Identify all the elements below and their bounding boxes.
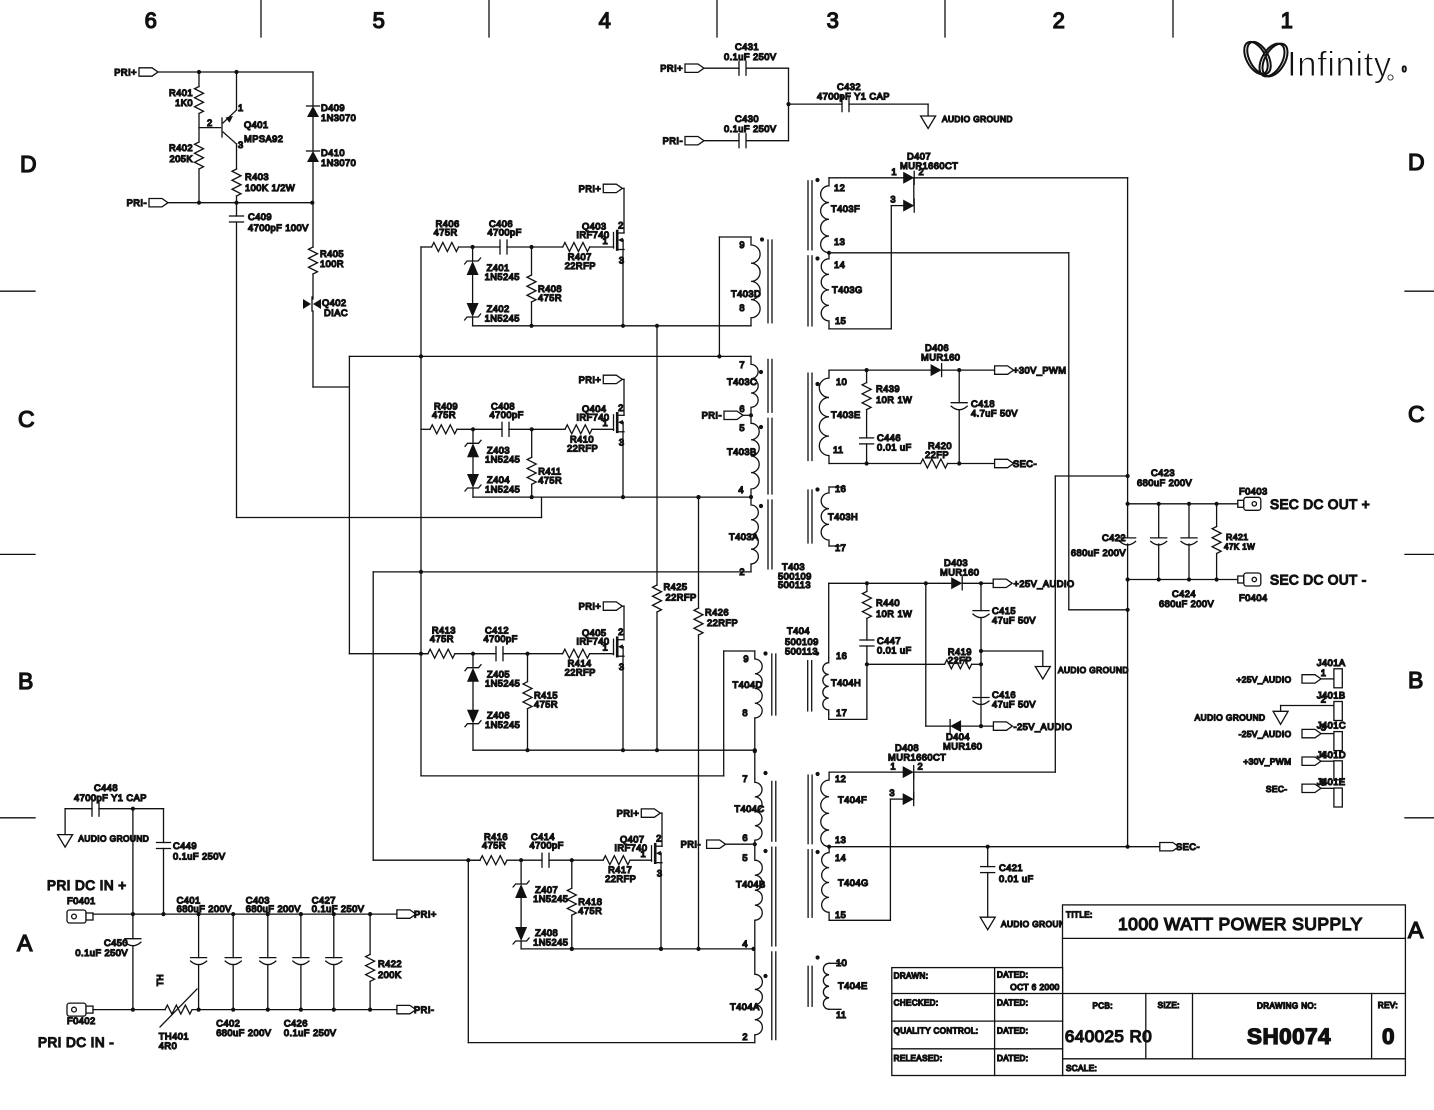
- capacitor C418: [958, 370, 960, 403]
- svg-text:TITLE:: TITLE:: [1066, 911, 1093, 920]
- svg-text:2: 2: [618, 403, 624, 413]
- svg-text:+25V_AUDIO: +25V_AUDIO: [1237, 674, 1292, 684]
- resistor R419 22FP: [945, 660, 972, 669]
- svg-text:C426: C426: [284, 1019, 308, 1029]
- transformer T403H: [821, 487, 829, 546]
- zener Z403 1N5245: [472, 429, 474, 443]
- svg-text:J401A: J401A: [1317, 658, 1346, 668]
- svg-text:15: 15: [835, 316, 846, 326]
- wire C409 route: [237, 517, 542, 519]
- diode D408 pin3: [903, 793, 914, 805]
- svg-text:T403E: T403E: [831, 410, 861, 420]
- svg-text:8: 8: [739, 303, 745, 313]
- SEC- flag: [995, 459, 1014, 467]
- svg-text:5: 5: [373, 8, 386, 33]
- svg-text:1N5245: 1N5245: [485, 454, 520, 464]
- svg-text:CHECKED:: CHECKED:: [894, 999, 939, 1008]
- capacitor C427: [333, 914, 335, 958]
- svg-text:3: 3: [619, 438, 625, 448]
- svg-text:C402: C402: [216, 1019, 240, 1029]
- svg-text:PRI-: PRI-: [663, 136, 683, 146]
- svg-text:4: 4: [742, 939, 748, 949]
- svg-text:22RFP: 22RFP: [565, 261, 596, 271]
- svg-text:22RFP: 22RFP: [666, 593, 697, 603]
- diode D408 MUR1660CT pin1-2: [829, 771, 903, 773]
- svg-text:PRI-: PRI-: [681, 840, 701, 850]
- svg-text:680uF 200V: 680uF 200V: [1159, 599, 1215, 609]
- wire pins13/14 to output loop: [829, 252, 1069, 254]
- svg-text:3: 3: [619, 255, 625, 265]
- svg-text:D407: D407: [907, 152, 931, 162]
- resistor R426 22RFP: [698, 497, 700, 608]
- capacitor C450: [132, 809, 134, 939]
- svg-text:J401E: J401E: [1317, 777, 1346, 787]
- svg-text:C431: C431: [735, 42, 759, 52]
- svg-text:500113: 500113: [785, 647, 818, 657]
- diode D407 pin3: [903, 200, 914, 212]
- resistor R401: [198, 72, 200, 87]
- audio ground mid: [1035, 667, 1050, 680]
- svg-text:SEC-: SEC-: [1266, 784, 1288, 794]
- svg-text:5: 5: [739, 423, 745, 433]
- svg-text:47K 1W: 47K 1W: [1224, 543, 1255, 552]
- svg-text:Z402: Z402: [487, 304, 510, 314]
- svg-text:2: 2: [739, 567, 745, 577]
- svg-text:475R: 475R: [538, 475, 562, 485]
- wire drain: [661, 813, 663, 846]
- wire T404G pin15 to D408 pin3: [829, 919, 890, 921]
- svg-text:4: 4: [738, 485, 744, 495]
- svg-text:C448: C448: [94, 783, 118, 793]
- svg-text:T403F: T403F: [831, 204, 860, 214]
- wire T404 pin8-pin7 link: [754, 718, 756, 778]
- svg-text:2: 2: [656, 834, 662, 844]
- svg-text:475R: 475R: [578, 906, 602, 916]
- svg-text:Z406: Z406: [487, 711, 510, 721]
- svg-text:PRI+: PRI+: [579, 602, 602, 612]
- svg-text:PRI+: PRI+: [660, 64, 683, 74]
- svg-text:0.1uF 250V: 0.1uF 250V: [724, 52, 777, 62]
- svg-text:5: 5: [742, 853, 748, 863]
- svg-text:QUALITY CONTROL:: QUALITY CONTROL:: [894, 1027, 979, 1036]
- zener Z404 1N5245: [472, 457, 474, 474]
- transistor Q401 MPSA92: [199, 127, 221, 129]
- resistor R418 475R: [571, 860, 573, 888]
- resistor R403: [232, 169, 241, 196]
- svg-text:10R 1W: 10R 1W: [876, 395, 912, 405]
- svg-text:DATED:: DATED:: [997, 1054, 1028, 1063]
- resistor R416 475R: [480, 856, 507, 865]
- capacitor C421: [987, 847, 989, 867]
- svg-text:4700pF 100V: 4700pF 100V: [248, 223, 309, 233]
- svg-text:SEC DC OUT +: SEC DC OUT +: [1270, 497, 1370, 512]
- resistor R402: [195, 142, 204, 169]
- svg-text:10R 1W: 10R 1W: [876, 609, 912, 619]
- svg-text:T404: T404: [787, 626, 810, 636]
- svg-text:12: 12: [834, 183, 845, 193]
- svg-text:SEC DC OUT -: SEC DC OUT -: [1270, 573, 1367, 588]
- svg-text:640025 R0: 640025 R0: [1065, 1027, 1152, 1046]
- svg-text:0.1uF 250V: 0.1uF 250V: [75, 948, 128, 958]
- svg-text:TH401: TH401: [159, 1032, 189, 1042]
- svg-text:PRI+: PRI+: [414, 910, 437, 920]
- svg-text:C430: C430: [735, 114, 759, 124]
- connector J401A pin: [1334, 669, 1342, 688]
- svg-text:+25V_AUDIO: +25V_AUDIO: [1014, 579, 1075, 589]
- svg-text:T403B: T403B: [727, 447, 757, 457]
- wire drain: [623, 606, 625, 640]
- drawing border ruler ticks: [260, 0, 262, 37]
- svg-text:F0402: F0402: [67, 1016, 96, 1026]
- transformer T404H: [823, 658, 829, 714]
- resistor R422 200K: [369, 914, 371, 954]
- fuse F0402: [67, 1003, 86, 1016]
- svg-text:C415: C415: [992, 606, 1016, 616]
- svg-text:1N5245: 1N5245: [533, 938, 568, 948]
- PRI+ flag bottom: [397, 910, 416, 918]
- wire D407 cathode to output bus: [914, 177, 1127, 179]
- transformer T403E: [819, 370, 829, 463]
- wire +25V top rail: [829, 582, 952, 584]
- svg-text:4.7uF 50V: 4.7uF 50V: [971, 409, 1018, 419]
- svg-text:D: D: [20, 151, 37, 177]
- svg-text:6: 6: [145, 8, 158, 33]
- svg-text:Q401: Q401: [244, 120, 269, 130]
- svg-text:AUDIO GROUND: AUDIO GROUND: [78, 834, 149, 844]
- svg-text:4700pF: 4700pF: [490, 410, 524, 420]
- resistor R414 22RFP: [563, 649, 590, 658]
- svg-text:AUDIO GROUND: AUDIO GROUND: [942, 114, 1013, 124]
- svg-text:1: 1: [603, 236, 609, 246]
- svg-text:DIAC: DIAC: [324, 308, 348, 318]
- svg-text:475R: 475R: [430, 634, 454, 644]
- svg-text:680uF 200V: 680uF 200V: [216, 1028, 272, 1038]
- svg-text:A: A: [17, 930, 33, 956]
- svg-text:DATED:: DATED:: [997, 999, 1028, 1008]
- svg-text:C409: C409: [248, 212, 272, 222]
- svg-text:R401: R401: [169, 88, 193, 98]
- svg-text:13: 13: [835, 835, 846, 845]
- svg-text:AUDIO GROUND: AUDIO GROUND: [1058, 665, 1129, 675]
- svg-text:T404G: T404G: [838, 878, 869, 888]
- svg-text:200K: 200K: [378, 970, 402, 980]
- svg-text:D409: D409: [321, 103, 345, 113]
- resistor R413 475R: [428, 649, 455, 658]
- svg-text:C446: C446: [877, 433, 901, 443]
- svg-text:4700pF Y1 CAP: 4700pF Y1 CAP: [74, 793, 147, 803]
- capacitor C424: [1188, 504, 1190, 538]
- audio ground input: [64, 809, 66, 835]
- svg-text:1N5245: 1N5245: [533, 894, 568, 904]
- wire mid rail R419: [867, 663, 945, 665]
- capacitor C409: [236, 203, 238, 216]
- svg-text:1N3070: 1N3070: [321, 158, 356, 168]
- svg-text:T404D: T404D: [733, 680, 763, 690]
- connector J401D pin: [1334, 761, 1342, 780]
- svg-text:11: 11: [836, 1010, 847, 1020]
- svg-text:RELEASED:: RELEASED:: [894, 1054, 943, 1063]
- svg-text:680uF 200V: 680uF 200V: [246, 904, 302, 914]
- svg-text:R402: R402: [169, 143, 193, 153]
- svg-text:PRI-: PRI-: [127, 198, 147, 208]
- svg-text:J401C: J401C: [1317, 721, 1346, 731]
- resistor R409 475R: [430, 425, 457, 434]
- svg-text:D406: D406: [925, 343, 949, 353]
- svg-text:3: 3: [890, 195, 896, 205]
- wire SEC- rail: [829, 846, 1160, 848]
- resistor R411 475R: [531, 429, 533, 457]
- svg-text:3: 3: [238, 140, 244, 150]
- diode D410 1N3070: [312, 117, 314, 151]
- svg-text:F0403: F0403: [1239, 487, 1268, 497]
- svg-text:PRI+: PRI+: [114, 68, 137, 78]
- svg-text:4R0: 4R0: [159, 1041, 177, 1051]
- svg-text:16: 16: [836, 651, 847, 661]
- resistor R440 10R 1W: [866, 583, 868, 591]
- svg-text:4700pF: 4700pF: [484, 634, 518, 644]
- zener Z407 1N5245: [520, 860, 522, 884]
- svg-text:1: 1: [1321, 668, 1327, 678]
- svg-text:F0404: F0404: [1239, 593, 1268, 603]
- wire drain: [623, 379, 625, 415]
- svg-text:15: 15: [835, 910, 846, 920]
- wire C431/C430 junction: [788, 68, 790, 141]
- capacitor C412 4700pF: [495, 647, 497, 661]
- capacitor C414 4700pF: [541, 853, 543, 867]
- svg-text:C450: C450: [104, 938, 128, 948]
- svg-text:R439: R439: [876, 384, 900, 394]
- wire audio ground tap: [981, 650, 1043, 652]
- capacitor C422: [1120, 537, 1136, 539]
- svg-text:1: 1: [603, 643, 609, 653]
- capacitor C403: [267, 914, 269, 958]
- svg-text:22FP: 22FP: [948, 656, 972, 666]
- svg-text:A: A: [1408, 917, 1424, 943]
- resistor R417 22RFP: [603, 856, 630, 865]
- svg-text:1000 WATT POWER SUPPLY: 1000 WATT POWER SUPPLY: [1118, 914, 1363, 934]
- capacitor C430: [738, 134, 740, 148]
- connector J401B pin: [1334, 702, 1342, 721]
- svg-text:T403C: T403C: [727, 377, 757, 387]
- svg-text:MUR160: MUR160: [921, 353, 960, 363]
- svg-text:1N3070: 1N3070: [321, 113, 356, 123]
- wire bus x=421: [420, 247, 422, 776]
- svg-text:+30V_PWM: +30V_PWM: [1243, 757, 1291, 767]
- svg-text:D: D: [1408, 149, 1425, 175]
- svg-text:T404H: T404H: [831, 678, 861, 688]
- transformer T404A: [755, 949, 763, 1043]
- svg-text:T404F: T404F: [838, 795, 867, 805]
- svg-text:MUR160: MUR160: [943, 742, 982, 752]
- border side ticks: [0, 290, 35, 292]
- svg-text:SEC-: SEC-: [1176, 842, 1200, 852]
- svg-text:C: C: [18, 406, 35, 432]
- svg-text:2: 2: [918, 761, 924, 771]
- svg-text:22RFP: 22RFP: [707, 618, 738, 628]
- svg-text:4700pF Y1 CAP: 4700pF Y1 CAP: [817, 92, 890, 102]
- connector J401E pin: [1334, 788, 1342, 807]
- capacitor C416: [973, 697, 989, 699]
- svg-text:12: 12: [835, 774, 846, 784]
- resistor R410 22RFP: [565, 425, 592, 434]
- wire T403 pin9 stub: [719, 236, 751, 238]
- resistor R405: [312, 203, 314, 247]
- svg-text:475R: 475R: [434, 228, 458, 238]
- svg-text:17: 17: [836, 708, 847, 718]
- wire source: [660, 863, 662, 949]
- wire PRI- to R403 node: [168, 202, 312, 204]
- svg-text:Infinity: Infinity: [1287, 45, 1392, 84]
- svg-text:14: 14: [835, 853, 846, 863]
- transformer T403A: [751, 497, 758, 572]
- PRI- flag bottom: [397, 1005, 416, 1013]
- gate drive cell 4 rail wire: [470, 859, 480, 861]
- wire H356 to T403 pin7/pin9: [349, 355, 751, 357]
- svg-text:0.1uF 250V: 0.1uF 250V: [312, 904, 365, 914]
- svg-text:DATED:: DATED:: [997, 1027, 1028, 1036]
- svg-text:C432: C432: [837, 82, 861, 92]
- capacitor C431: [738, 61, 740, 75]
- svg-text:D408: D408: [895, 743, 919, 753]
- capacitor C446: [860, 437, 874, 439]
- diode D407 MUR1660CT pin1-2: [829, 177, 903, 179]
- audio ground C421: [980, 917, 995, 930]
- svg-text:0.1uF 250V: 0.1uF 250V: [173, 852, 226, 862]
- svg-text:4700pF: 4700pF: [530, 841, 564, 851]
- wire -25V bottom rail: [926, 725, 950, 727]
- svg-text:OCT 6 2000: OCT 6 2000: [1010, 982, 1060, 992]
- svg-text:17: 17: [835, 543, 846, 553]
- svg-text:D403: D403: [944, 558, 968, 568]
- transformer T403B: [751, 415, 759, 497]
- svg-text:1N5245: 1N5245: [485, 720, 520, 730]
- wire D404 branch vertical: [925, 583, 927, 726]
- wire T403E top rail: [829, 369, 931, 371]
- svg-text:1N5245: 1N5245: [485, 272, 520, 282]
- resistor R406 475R: [432, 243, 459, 252]
- svg-text:4: 4: [599, 8, 612, 33]
- svg-text:1K0: 1K0: [175, 98, 193, 108]
- capacitor C408 4700pF: [501, 422, 503, 436]
- svg-text:MUR160: MUR160: [940, 568, 979, 578]
- svg-text:Q402: Q402: [322, 298, 347, 308]
- gate drive cell 2 rail wire: [421, 428, 430, 430]
- svg-text:D404: D404: [946, 732, 970, 742]
- wire SEC DC OUT - rail: [1128, 579, 1238, 581]
- svg-text:13: 13: [834, 237, 845, 247]
- svg-text:F0401: F0401: [67, 896, 96, 906]
- svg-text:7: 7: [742, 774, 748, 784]
- svg-text:475R: 475R: [538, 293, 562, 303]
- capacitor C423: [1158, 504, 1160, 538]
- svg-text:0.01 uF: 0.01 uF: [999, 874, 1034, 884]
- -25V_AUDIO flag: [993, 722, 1012, 730]
- svg-text:PRI DC IN -: PRI DC IN -: [38, 1035, 114, 1050]
- wire bus x=373: [372, 572, 374, 860]
- svg-text:AUDIO GROUND: AUDIO GROUND: [1001, 919, 1072, 929]
- svg-text:PRI+: PRI+: [617, 809, 640, 819]
- title block outline: [1063, 905, 1406, 1076]
- svg-text:T404C: T404C: [734, 804, 764, 814]
- capacitor C406 4700pF: [499, 240, 501, 254]
- svg-text:C: C: [1408, 401, 1425, 427]
- svg-text:10: 10: [836, 958, 847, 968]
- mosfet Q405 IRF740: [613, 639, 615, 655]
- svg-text:680uF 200V: 680uF 200V: [177, 904, 233, 914]
- zener Z405 1N5245: [472, 654, 474, 668]
- svg-text:B: B: [1408, 667, 1424, 693]
- svg-text:+30V_PWM: +30V_PWM: [1013, 366, 1066, 376]
- svg-text:C416: C416: [992, 690, 1016, 700]
- svg-text:-25V_AUDIO: -25V_AUDIO: [1014, 722, 1073, 732]
- svg-text:Z408: Z408: [535, 928, 558, 938]
- audio ground top: [927, 104, 929, 116]
- svg-text:0.01 uF: 0.01 uF: [877, 443, 912, 453]
- svg-text:T403D: T403D: [731, 289, 761, 299]
- svg-text:9: 9: [739, 240, 745, 250]
- svg-text:205K: 205K: [169, 154, 193, 164]
- svg-text:C418: C418: [971, 399, 995, 409]
- svg-text:0: 0: [1382, 1024, 1395, 1049]
- svg-text:22RFP: 22RFP: [565, 668, 596, 678]
- svg-text:11: 11: [833, 445, 844, 455]
- svg-text:T404A: T404A: [730, 1002, 760, 1012]
- wire PRI- input rail: [93, 1009, 165, 1011]
- wire cell bottom rail: [521, 948, 755, 950]
- svg-text:SH0074: SH0074: [1247, 1024, 1331, 1049]
- wire C448 node: [133, 808, 164, 810]
- svg-text:3: 3: [827, 8, 840, 33]
- transformer T404G: [822, 847, 829, 921]
- wire source: [622, 656, 624, 750]
- wire T404H pin16 riser: [828, 583, 830, 657]
- svg-text:8: 8: [742, 708, 748, 718]
- svg-text:Z404: Z404: [487, 475, 510, 485]
- svg-text:J401D: J401D: [1317, 750, 1346, 760]
- zener Z402 1N5245: [472, 275, 474, 303]
- svg-text:1: 1: [238, 103, 244, 113]
- svg-text:REV:: REV:: [1378, 1001, 1398, 1010]
- svg-text:3: 3: [619, 662, 625, 672]
- connector J401C pin: [1334, 732, 1342, 751]
- svg-text:9: 9: [743, 654, 749, 664]
- svg-text:6: 6: [739, 404, 745, 414]
- capacitor C401: [198, 914, 200, 958]
- zener Z408 1N5245: [520, 898, 522, 927]
- capacitor C415: [980, 583, 982, 610]
- wire T403E bottom rail: [829, 463, 921, 465]
- wire source: [622, 432, 624, 497]
- wire T403A pin2 rail: [373, 571, 751, 573]
- diode D403 MUR160: [951, 577, 962, 589]
- svg-text:T403H: T403H: [828, 512, 858, 522]
- svg-text:22RFP: 22RFP: [567, 443, 598, 453]
- svg-text:C422: C422: [1102, 533, 1126, 543]
- zener Z406 1N5245: [472, 682, 474, 710]
- svg-text:PRI-: PRI-: [414, 1005, 434, 1015]
- wire cell bottom rail: [473, 496, 751, 498]
- svg-text:C424: C424: [1172, 589, 1196, 599]
- wire source: [622, 250, 624, 326]
- diode D404 MUR160: [949, 720, 951, 733]
- wire T403G pin15 to D407 pin3: [829, 328, 891, 330]
- svg-text:C421: C421: [999, 863, 1023, 873]
- svg-text:DRAWING NO:: DRAWING NO:: [1257, 1002, 1317, 1011]
- svg-text:47uF 50V: 47uF 50V: [992, 700, 1036, 710]
- resistor R425 22RFP: [656, 326, 658, 585]
- wire output bus x=1127.6: [1127, 178, 1129, 538]
- svg-text:1: 1: [603, 418, 609, 428]
